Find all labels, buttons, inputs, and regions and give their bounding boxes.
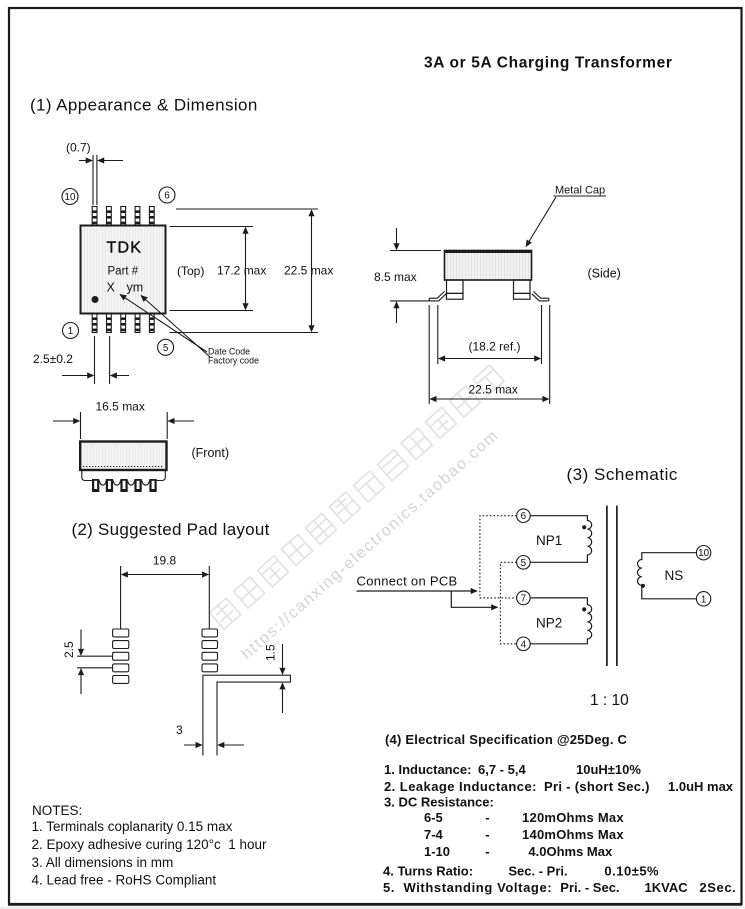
svg-text:2.5: 2.5 bbox=[62, 641, 76, 658]
winding NP1 bbox=[530, 516, 592, 563]
pin circle 5 bbox=[517, 556, 531, 570]
svg-text:3. DC Resistance:: 3. DC Resistance: bbox=[384, 795, 494, 810]
label Metal Cap bbox=[526, 185, 606, 247]
svg-text:(3) Schematic: (3) Schematic bbox=[567, 465, 678, 484]
svg-text:4. Lead free - RoHS Compliant: 4. Lead free - RoHS Compliant bbox=[32, 873, 217, 888]
svg-text:10uH±10%: 10uH±10% bbox=[576, 762, 641, 777]
front body bbox=[80, 442, 166, 471]
gull-wing lead left bbox=[429, 291, 446, 301]
svg-text:8.5 max: 8.5 max bbox=[374, 270, 417, 284]
svg-text:-: - bbox=[485, 827, 489, 842]
svg-text:Connect on PCB: Connect on PCB bbox=[357, 574, 458, 589]
dimension 1.5 (rotated) bbox=[264, 644, 278, 661]
svg-text:https://canxing-electronics.ta: https://canxing-electronics.taobao.com bbox=[238, 427, 502, 663]
watermark url bbox=[238, 427, 502, 663]
svg-text:-: - bbox=[485, 844, 489, 859]
svg-text:1.5: 1.5 bbox=[264, 644, 278, 661]
pin1 index dot bbox=[92, 296, 99, 303]
pin circle 6 bbox=[517, 509, 531, 523]
svg-text:Metal Cap: Metal Cap bbox=[555, 185, 605, 197]
core feet right bbox=[514, 280, 531, 299]
svg-text:1: 1 bbox=[701, 594, 706, 605]
pin circle 5 bbox=[158, 339, 174, 355]
svg-text:120mOhms Max: 120mOhms Max bbox=[522, 810, 624, 825]
svg-text:1: 1 bbox=[68, 326, 73, 337]
NP1 polarity dot bbox=[582, 525, 586, 529]
dimension 0.7 arrows bbox=[79, 160, 123, 162]
svg-text:Part #: Part # bbox=[108, 266, 139, 278]
pin circle 4 bbox=[517, 637, 531, 651]
core feet left bbox=[447, 280, 464, 299]
pin circle 7 bbox=[517, 591, 531, 605]
pin circle 1 bbox=[63, 323, 79, 339]
watermark chinese company name bbox=[210, 365, 505, 629]
svg-text:6,7 - 5,4: 6,7 - 5,4 bbox=[478, 762, 526, 777]
svg-text:(0.7): (0.7) bbox=[66, 141, 91, 155]
right pad column bbox=[202, 629, 218, 672]
svg-text:1. Inductance:: 1. Inductance: bbox=[384, 762, 471, 777]
spec line 6 bbox=[424, 844, 613, 859]
svg-text:1.0uH max: 1.0uH max bbox=[668, 779, 734, 794]
NP2 polarity dot bbox=[582, 607, 586, 611]
svg-text:3. All dimensions in mm: 3. All dimensions in mm bbox=[32, 855, 174, 870]
pin circle 10 bbox=[62, 189, 78, 205]
svg-text:NOTES:: NOTES: bbox=[32, 803, 82, 818]
spec line 2 bbox=[384, 779, 734, 794]
svg-text:19.8: 19.8 bbox=[153, 554, 177, 568]
gull-wing lead right bbox=[532, 291, 549, 301]
svg-text:1-10: 1-10 bbox=[424, 844, 450, 859]
svg-text:6: 6 bbox=[164, 191, 170, 202]
svg-text:5. Withstanding Voltage:: 5. Withstanding Voltage: bbox=[383, 880, 552, 895]
svg-text:6: 6 bbox=[521, 511, 527, 522]
svg-text:140mOhms Max: 140mOhms Max bbox=[522, 827, 624, 842]
svg-text:(18.2 ref.): (18.2 ref.) bbox=[469, 340, 521, 354]
pcb arrow 2 bbox=[451, 591, 497, 607]
pin circle 1 bbox=[696, 592, 710, 606]
date/factory code X ym bbox=[107, 281, 144, 295]
svg-text:2. Leakage Inductance:: 2. Leakage Inductance: bbox=[384, 779, 537, 794]
L-shaped pad trace bbox=[203, 675, 291, 755]
svg-text:ym: ym bbox=[127, 281, 144, 295]
spec line 5 bbox=[424, 827, 624, 842]
svg-text:(2) Suggested Pad layout: (2) Suggested Pad layout bbox=[72, 520, 270, 539]
svg-text:1 : 10: 1 : 10 bbox=[590, 692, 629, 709]
svg-text:10: 10 bbox=[698, 548, 709, 559]
spec line 1 bbox=[384, 762, 641, 777]
bottom pins row bbox=[92, 314, 154, 333]
spec line 7 bbox=[383, 864, 659, 879]
transformer core bbox=[607, 506, 617, 667]
dimension 2.5 (rotated) bbox=[62, 641, 76, 658]
front terminals 2-5 bbox=[106, 479, 113, 492]
dotted pcb connection 6-7 bbox=[480, 516, 517, 598]
svg-text:3A or 5A Charging Transformer: 3A or 5A Charging Transformer bbox=[424, 55, 673, 72]
pcb arrow 1 bbox=[357, 590, 478, 592]
svg-text:16.5 max: 16.5 max bbox=[96, 400, 145, 414]
svg-text:NP1: NP1 bbox=[536, 533, 562, 548]
dotted mold line bbox=[83, 466, 164, 468]
svg-text:5: 5 bbox=[521, 558, 527, 569]
pin circle 10 bbox=[696, 546, 710, 560]
winding NS bbox=[637, 553, 696, 599]
pin circle 6 bbox=[159, 187, 175, 203]
svg-text:TDK: TDK bbox=[107, 240, 143, 257]
svg-text:4. Turns Ratio:: 4. Turns Ratio: bbox=[383, 864, 473, 879]
svg-text:(Side): (Side) bbox=[588, 267, 621, 281]
svg-text:0.10±5%: 0.10±5% bbox=[604, 864, 659, 879]
svg-text:(1) Appearance & Dimension: (1) Appearance & Dimension bbox=[30, 96, 258, 115]
svg-text:(4) Electrical Specification @: (4) Electrical Specification @25Deg. C bbox=[385, 732, 628, 747]
svg-text:Factory code: Factory code bbox=[208, 356, 259, 366]
svg-text:3: 3 bbox=[176, 723, 183, 737]
svg-text:7: 7 bbox=[521, 593, 526, 604]
svg-text:10: 10 bbox=[65, 192, 76, 203]
package body top view bbox=[81, 226, 166, 314]
svg-text:(Front): (Front) bbox=[192, 446, 230, 460]
winding NP2 bbox=[530, 598, 592, 644]
metal cap body bbox=[445, 251, 532, 281]
dimension 0.7 extension lines bbox=[93, 155, 97, 205]
svg-text:17.2 max: 17.2 max bbox=[217, 264, 266, 278]
svg-text:22.5 max: 22.5 max bbox=[284, 264, 333, 278]
front tray scallops bbox=[100, 481, 150, 486]
svg-text:6-5: 6-5 bbox=[424, 810, 443, 825]
svg-text:4: 4 bbox=[521, 639, 527, 650]
svg-text:1KVAC: 1KVAC bbox=[645, 880, 689, 895]
svg-text:NP2: NP2 bbox=[536, 616, 562, 631]
left pad column bbox=[113, 629, 129, 683]
svg-text:4.0Ohms Max: 4.0Ohms Max bbox=[528, 844, 613, 859]
svg-text:Pri. - Sec.: Pri. - Sec. bbox=[560, 880, 619, 895]
svg-text:22.5 max: 22.5 max bbox=[469, 383, 518, 397]
svg-text:7-4: 7-4 bbox=[424, 827, 444, 842]
svg-text:2.5±0.2: 2.5±0.2 bbox=[33, 352, 73, 366]
front lower tray bbox=[82, 471, 166, 481]
svg-text:-: - bbox=[485, 810, 489, 825]
svg-text:X: X bbox=[107, 281, 116, 295]
svg-text:Sec. - Pri.: Sec. - Pri. bbox=[508, 864, 567, 879]
front terminal 1 bbox=[92, 479, 99, 492]
spec line 4 bbox=[424, 810, 624, 825]
top pins row bbox=[92, 207, 154, 226]
dotted pcb connection 5-4 bbox=[500, 562, 516, 644]
svg-text:2Sec.: 2Sec. bbox=[699, 880, 736, 895]
leader arrows to date/factory code bbox=[120, 295, 210, 358]
svg-text:5: 5 bbox=[163, 343, 169, 354]
svg-text:NS: NS bbox=[665, 568, 684, 583]
spec line 8 bbox=[383, 880, 736, 895]
svg-text:2. Epoxy adhesive curing 120°c: 2. Epoxy adhesive curing 120°c 1 hour bbox=[32, 837, 268, 852]
svg-text:1. Terminals coplanarity 0.15: 1. Terminals coplanarity 0.15 max bbox=[32, 819, 233, 834]
NS polarity dot bbox=[641, 584, 645, 588]
svg-text:Pri - (short Sec.): Pri - (short Sec.) bbox=[544, 779, 650, 794]
svg-text:(Top): (Top) bbox=[177, 264, 204, 278]
